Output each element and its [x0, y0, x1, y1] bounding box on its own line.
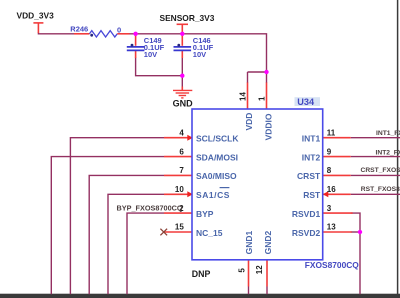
svg-text:CRST: CRST	[297, 171, 321, 181]
svg-text:VDD: VDD	[244, 113, 254, 131]
svg-text:10V: 10V	[193, 50, 206, 59]
svg-text:8: 8	[327, 166, 332, 175]
svg-text:BYP: BYP	[196, 209, 214, 219]
svg-text:16: 16	[327, 185, 336, 194]
svg-text:FXOS8700CQ: FXOS8700CQ	[305, 260, 359, 270]
svg-text:INT1_FX: INT1_FX	[376, 130, 400, 137]
svg-text:NC_15: NC_15	[196, 228, 223, 238]
svg-text:R246: R246	[70, 25, 88, 34]
svg-text:10: 10	[175, 185, 184, 194]
svg-text:9: 9	[327, 147, 332, 156]
svg-text:INT2_FX: INT2_FX	[376, 149, 400, 156]
svg-text:SA0/MISO: SA0/MISO	[196, 171, 237, 181]
svg-text:VDDIO: VDDIO	[264, 113, 274, 140]
svg-text:INT1: INT1	[302, 134, 321, 144]
svg-text:14: 14	[239, 92, 248, 101]
svg-text:VDD_3V3: VDD_3V3	[17, 10, 55, 20]
svg-text:0: 0	[117, 25, 121, 34]
svg-text:RSVD1: RSVD1	[292, 209, 321, 219]
svg-text:RSVD2: RSVD2	[292, 228, 321, 238]
svg-text:6: 6	[179, 147, 184, 156]
svg-text:SA1/CS: SA1/CS	[196, 190, 230, 200]
svg-text:CRST_FXOS8: CRST_FXOS8	[361, 167, 400, 174]
svg-text:GND1: GND1	[244, 231, 254, 255]
svg-text:15: 15	[175, 223, 184, 232]
svg-text:3: 3	[327, 204, 332, 213]
svg-text:U34: U34	[297, 97, 315, 107]
svg-text:GND2: GND2	[263, 231, 273, 255]
svg-text:13: 13	[327, 223, 336, 232]
svg-text:4: 4	[179, 128, 184, 137]
svg-text:BYP_FXOS8700CQ: BYP_FXOS8700CQ	[117, 204, 183, 213]
svg-text:RST: RST	[303, 190, 321, 200]
svg-text:SDA/MOSI: SDA/MOSI	[196, 152, 238, 162]
svg-text:10V: 10V	[144, 50, 157, 59]
svg-text:12: 12	[255, 265, 264, 274]
svg-text:7: 7	[179, 166, 184, 175]
svg-text:GND: GND	[173, 98, 194, 108]
svg-text:INT2: INT2	[302, 152, 321, 162]
svg-text:5: 5	[238, 268, 247, 273]
svg-text:11: 11	[327, 128, 336, 137]
svg-text:SENSOR_3V3: SENSOR_3V3	[160, 13, 215, 23]
svg-text:RST_FXOS87: RST_FXOS87	[361, 186, 400, 193]
svg-text:1: 1	[257, 96, 266, 101]
svg-text:SCL/SCLK: SCL/SCLK	[196, 134, 239, 144]
svg-text:DNP: DNP	[192, 269, 211, 279]
